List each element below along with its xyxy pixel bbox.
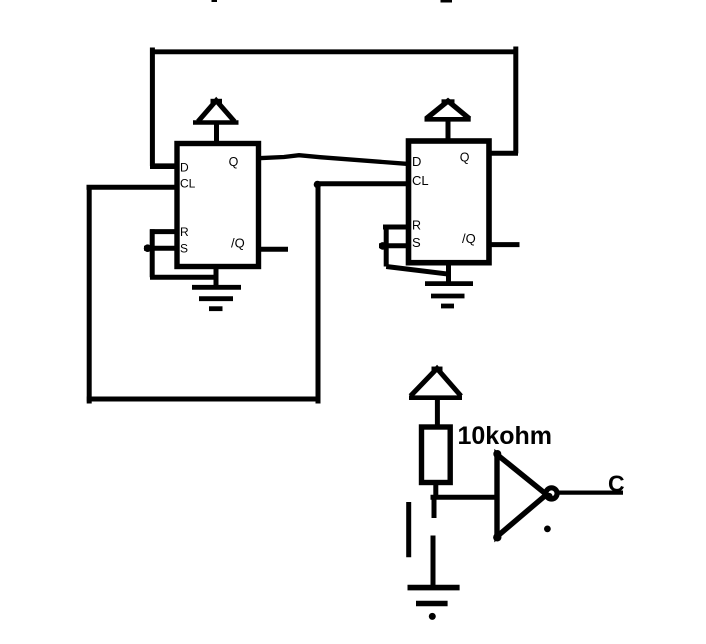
svg-text:/Q: /Q bbox=[231, 236, 245, 251]
wire big loop right vertical bbox=[316, 184, 321, 404]
capacitor C1 right plate and wire to ground bbox=[431, 536, 436, 586]
junction dot at inverter input bbox=[495, 494, 502, 501]
wire Q of U1 to D of U2 bbox=[259, 155, 407, 164]
wire R input of U2 bbox=[383, 225, 409, 230]
svg-text:10kohm: 10kohm bbox=[458, 422, 552, 450]
svg-text:S: S bbox=[412, 235, 421, 250]
inverter U3 triangle bbox=[497, 455, 547, 537]
wire resistor to junction bbox=[433, 484, 438, 497]
wire into CL of U2 bbox=[316, 181, 409, 186]
wire right vertical of top loop bbox=[513, 47, 518, 154]
wire R input of U1 bbox=[150, 229, 177, 234]
wire S input of U1 bbox=[144, 246, 177, 251]
wire bracket to ground stem of U1 bbox=[150, 275, 218, 280]
wire into D of U1 bbox=[150, 163, 177, 169]
wire stub down from junction bbox=[432, 497, 437, 518]
ground symbol under U2 bbox=[425, 263, 473, 306]
VCC symbol above resistor bbox=[409, 369, 462, 428]
cropped text remnant right bbox=[441, 0, 453, 3]
junction dot on S wire of U2 bbox=[379, 242, 387, 250]
VCC symbol above U1 bbox=[193, 101, 239, 145]
ground symbol under U1 bbox=[192, 264, 241, 309]
junction dot on S wire of U1 bbox=[144, 244, 152, 252]
wire R-S bracket vertical of U1 bbox=[150, 229, 155, 277]
svg-text:Q: Q bbox=[460, 151, 470, 165]
wire S input of U2 bbox=[379, 243, 409, 248]
wire big loop left vertical bbox=[87, 187, 92, 403]
wire /Q stub of U1 bbox=[259, 247, 289, 252]
svg-text:R: R bbox=[180, 225, 189, 239]
cropped text remnant left bbox=[212, 0, 218, 2]
svg-text:/Q: /Q bbox=[462, 231, 476, 246]
stray dot below bubble bbox=[544, 526, 551, 533]
svg-text:CL: CL bbox=[412, 173, 429, 188]
wire left vertical of top loop bbox=[150, 48, 155, 167]
wire /Q stub of U2 bbox=[488, 242, 520, 247]
VCC symbol above U2 bbox=[425, 101, 471, 141]
ground dot bbox=[429, 613, 436, 620]
svg-text:CL: CL bbox=[180, 177, 196, 191]
wire Q output of U2 bbox=[488, 151, 518, 156]
ground symbol bottom bbox=[408, 588, 460, 604]
inverter bubble inner dot bbox=[546, 493, 553, 500]
wire CL input of U1 bbox=[87, 185, 178, 190]
wire R-S bracket vertical of U2 bbox=[384, 225, 389, 267]
wire big loop bottom horizontal bbox=[87, 397, 318, 402]
wire bracket slant to ground stem of U2 bbox=[386, 267, 449, 275]
svg-text:C: C bbox=[608, 471, 625, 497]
inverter bubble bbox=[546, 488, 557, 499]
svg-text:D: D bbox=[412, 154, 421, 169]
svg-text:D: D bbox=[180, 161, 189, 175]
flip-flop U1 body bbox=[177, 144, 259, 267]
svg-text:S: S bbox=[180, 242, 188, 256]
capacitor C1 left plate bbox=[406, 502, 411, 557]
svg-text:R: R bbox=[412, 219, 421, 233]
wire inverter output bbox=[558, 490, 623, 494]
flip-flop U2 body bbox=[409, 141, 490, 263]
resistor R1 bbox=[422, 427, 451, 483]
wire junction to inverter input bbox=[431, 495, 498, 500]
wire top horizontal (FF2 Q to FF1 D net) bbox=[150, 49, 518, 54]
junction dot at CL2 corner bbox=[314, 181, 322, 189]
svg-text:Q: Q bbox=[229, 155, 239, 169]
